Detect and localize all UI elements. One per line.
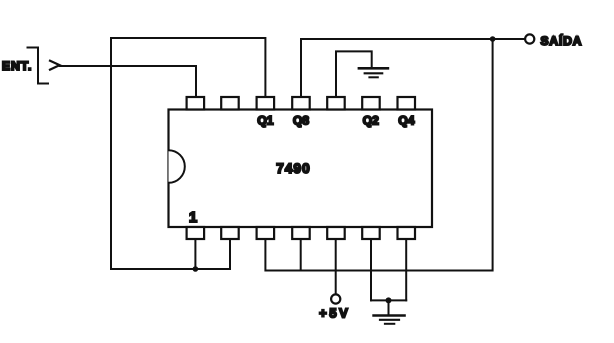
wire stub pin 1 to bus — [194, 239, 196, 269]
IC U1 pin 5 (bottom row 5) — [327, 227, 345, 239]
svg-text:Q8: Q8 — [293, 114, 309, 128]
junction dot pin1/bus — [193, 266, 199, 272]
junction dot ground bus — [386, 297, 392, 303]
IC U1 pin 14 (top row 1) — [187, 97, 205, 110]
wire pin 6 bottom to ground bus — [370, 239, 372, 300]
svg-text:7490: 7490 — [276, 161, 310, 176]
pin label Q8 — [293, 114, 309, 128]
svg-text:Q2: Q2 — [363, 114, 379, 128]
wire pin 5 bottom to +5V terminal — [335, 239, 337, 294]
label ENT. — [2, 59, 32, 73]
wire net B right riser down and bottom bus to pin 3 — [265, 39, 492, 271]
label SAÍDA — [541, 33, 583, 48]
pin label Q2 — [363, 114, 379, 128]
wire ENT input: arrow to pin 14 top — [60, 66, 196, 97]
wire net B: pin 11 (Q8) top to output line — [301, 39, 525, 97]
IC U1 pin 12 (top row 3, Q1) — [257, 97, 275, 110]
IC U1 pin 6 (bottom row 6) — [362, 227, 380, 239]
IC U1 value label 7490 — [276, 161, 310, 176]
wire pin 7 bottom to ground bus — [405, 239, 407, 300]
input arrow — [49, 60, 60, 70]
wire net A bottom: left bus to pin 2 — [111, 239, 230, 269]
pin label Q4 — [398, 114, 414, 128]
wire stub pin 4 to bottom bus — [300, 239, 302, 271]
ground symbol (bottom) — [374, 316, 405, 324]
input connector bracket (ENT.) — [28, 48, 49, 84]
IC U1 pin 13 (top row 2) — [221, 97, 239, 110]
IC U1 pin 8 (top row 7, Q4) — [398, 97, 416, 110]
wire ground bus horizontal — [371, 299, 406, 301]
pin number label 1 — [189, 210, 197, 226]
pin label Q1 — [257, 114, 273, 128]
IC U1 pin-1 index notch — [169, 150, 185, 183]
IC U1 7490 body — [169, 110, 433, 228]
output terminal circle (SAÍDA) — [525, 34, 534, 43]
IC U1 pin 2 (bottom row 2) — [221, 227, 239, 239]
wire ground stem — [388, 300, 390, 314]
wire net A top: left riser to pin 12 (Q1) top — [111, 38, 265, 269]
wire pin 10 top to upper ground — [336, 51, 372, 97]
label +5V — [319, 306, 350, 321]
IC U1 pin 9 (top row 6, Q2) — [362, 97, 380, 110]
IC U1 pin 10 (top row 5) — [327, 97, 345, 110]
svg-text:ENT.: ENT. — [2, 59, 32, 73]
IC U1 pin 4 (bottom row 4) — [292, 227, 310, 239]
svg-text:+5V: +5V — [319, 306, 350, 321]
svg-text:1: 1 — [189, 210, 197, 226]
+5V supply terminal circle — [331, 294, 340, 303]
ground symbol (top) — [359, 68, 388, 77]
svg-text:Q1: Q1 — [257, 114, 273, 128]
IC U1 pin 3 (bottom row 3) — [257, 227, 275, 239]
svg-text:SAÍDA: SAÍDA — [541, 33, 583, 48]
IC U1 pin 11 (top row 4, Q8) — [292, 97, 310, 110]
IC U1 pin 7 (bottom row 7) — [398, 227, 416, 239]
svg-text:Q4: Q4 — [398, 114, 414, 128]
junction dot output line — [490, 36, 496, 42]
IC U1 pin 1 (bottom row 1) — [187, 227, 205, 239]
